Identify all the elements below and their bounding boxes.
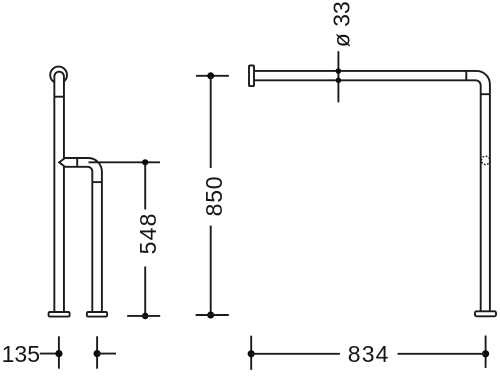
svg-text:ø 33: ø 33 [329, 1, 355, 47]
svg-text:850: 850 [201, 176, 227, 217]
svg-text:135: 135 [2, 341, 40, 367]
svg-text:834: 834 [348, 341, 390, 367]
svg-text:548: 548 [135, 212, 161, 254]
